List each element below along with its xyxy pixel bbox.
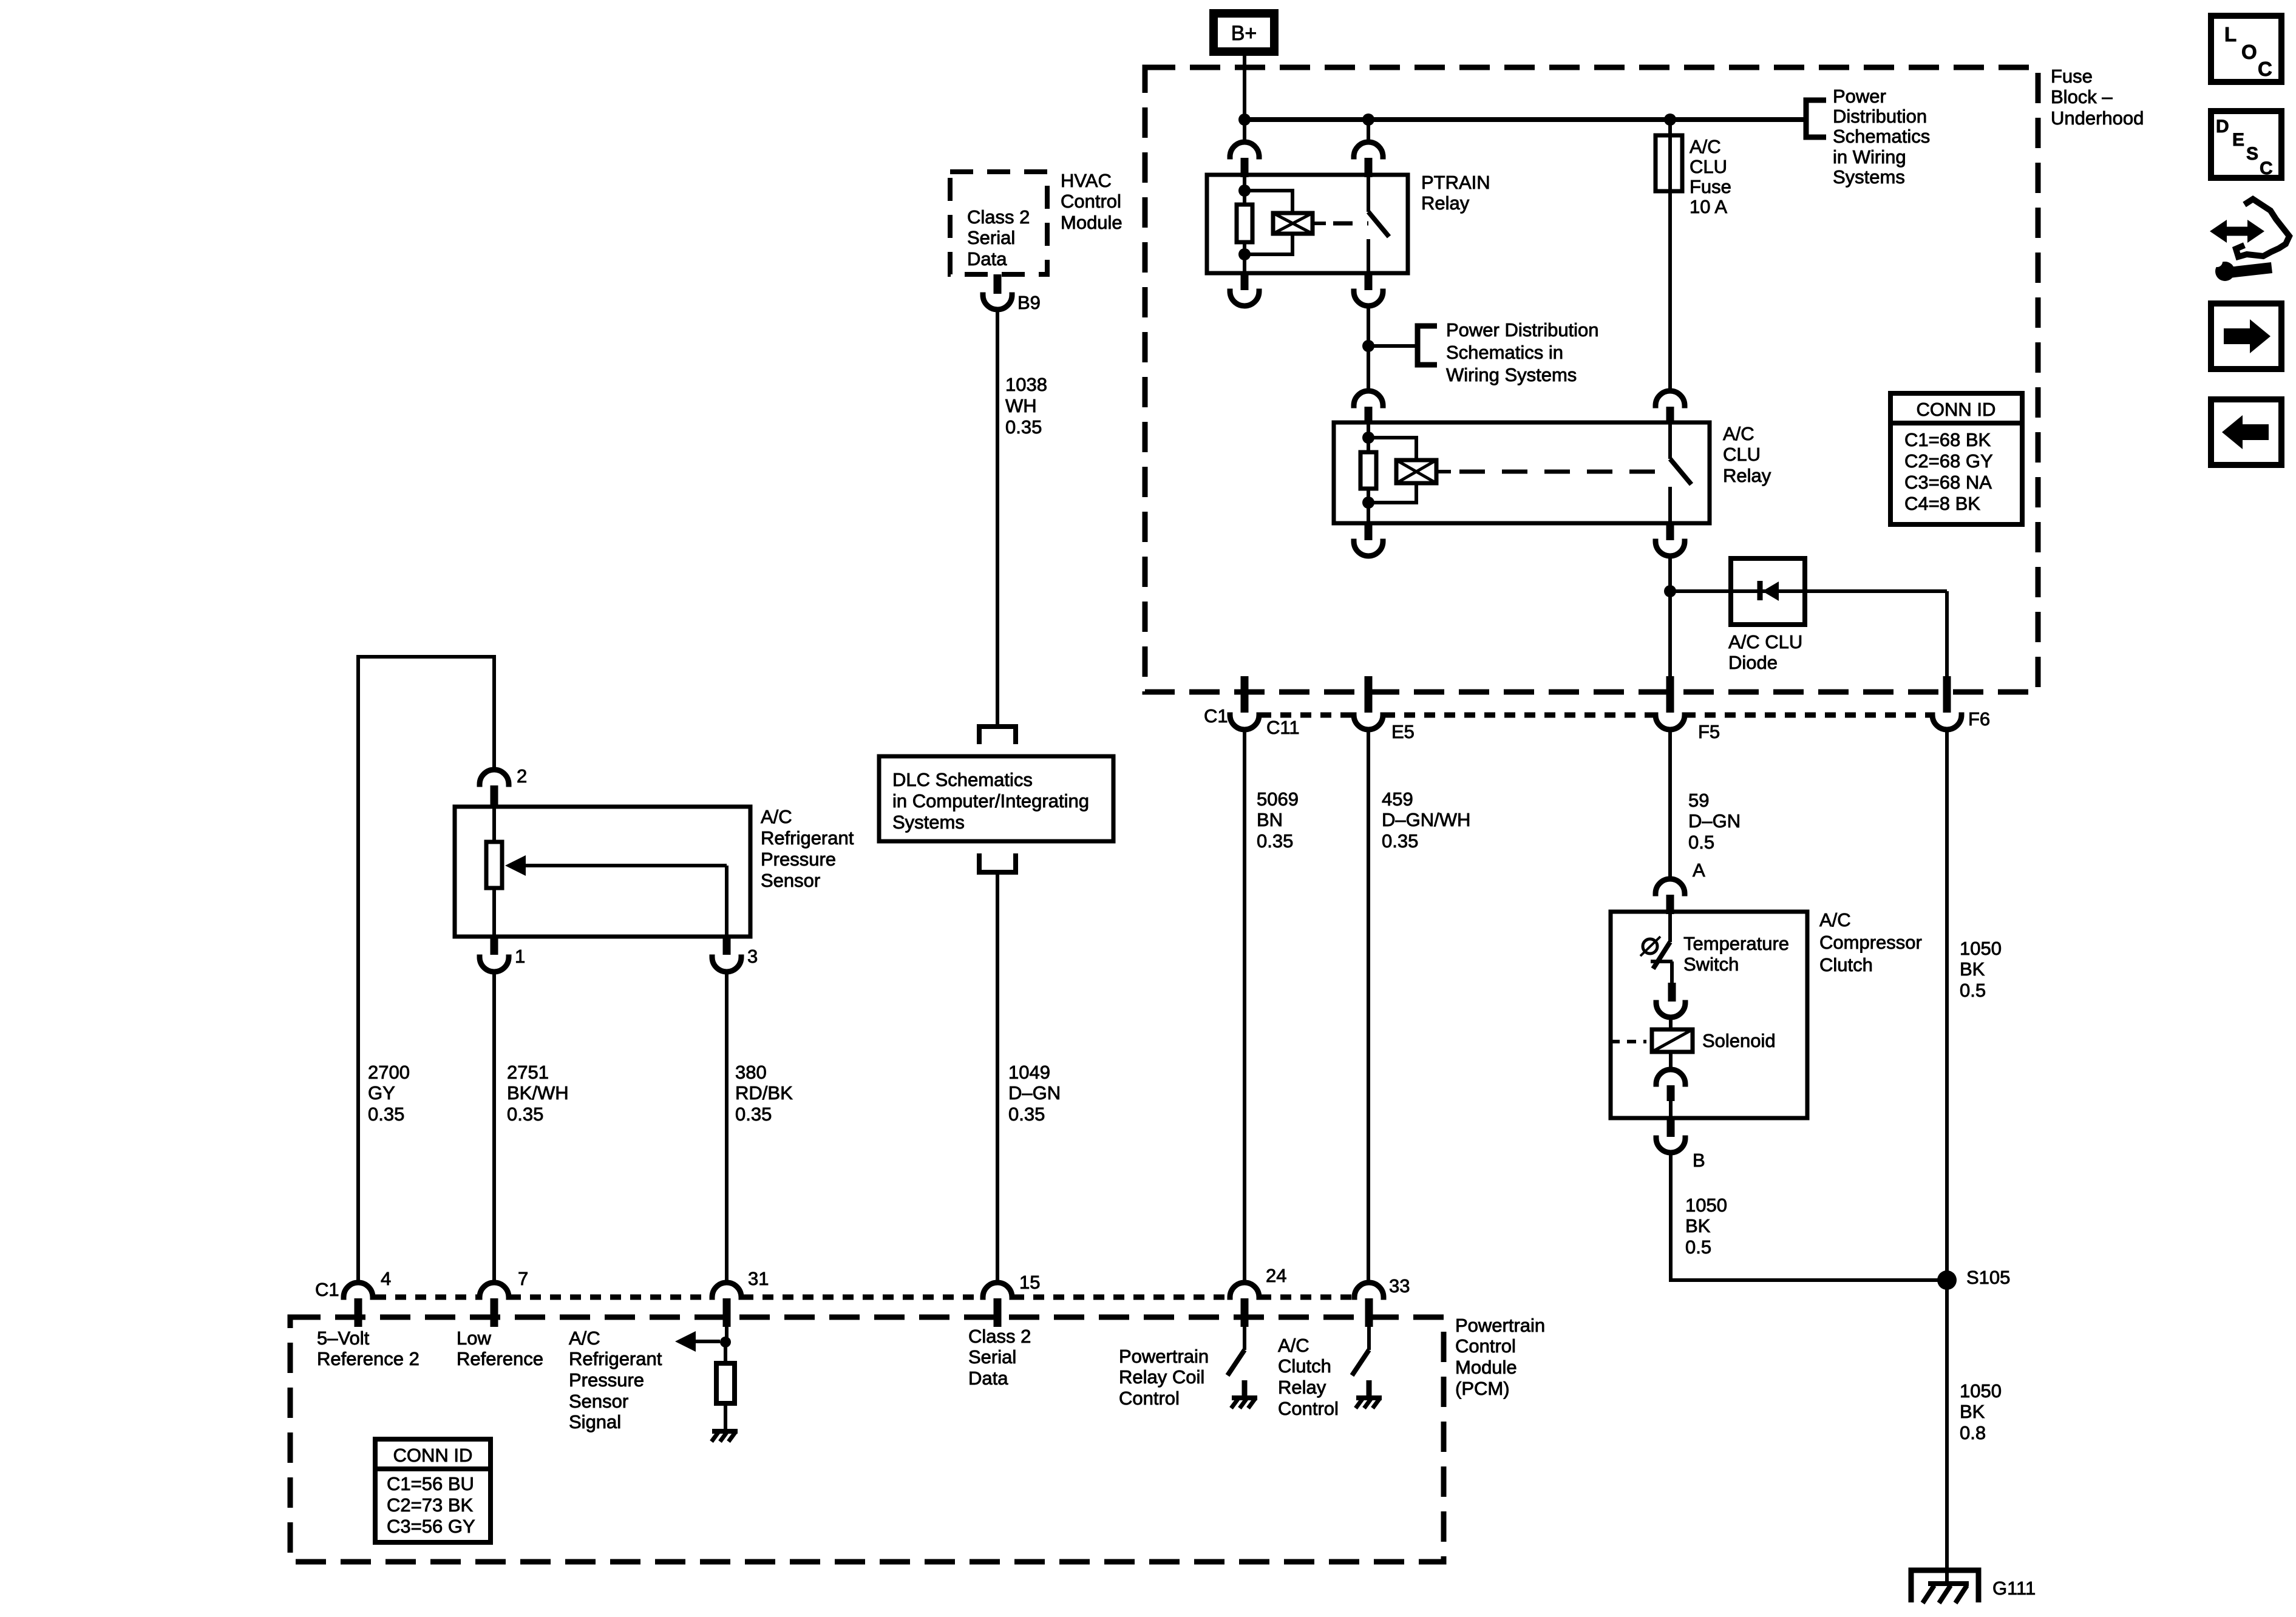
- wire 5069 BN (C11 to PCM 24): [1243, 730, 1246, 1283]
- svg-text:A/C: A/C: [1723, 423, 1754, 444]
- off-page bracket above DLC box: [979, 727, 1016, 744]
- node CLU coil bottom: [1362, 497, 1374, 509]
- fuse block connector row (dotted): [1260, 713, 1932, 718]
- svg-text:Systems: Systems: [1833, 166, 1905, 188]
- connector pin PTRAIN out (switch, bottom): [1365, 273, 1373, 290]
- svg-text:CONN ID: CONN ID: [393, 1445, 473, 1466]
- svg-text:F5: F5: [1698, 721, 1720, 742]
- wire 1050 BK 0.5 (F6 down): [1945, 730, 1949, 1280]
- connector pin F5: [1666, 676, 1674, 713]
- PTRAIN winding symbol: [1273, 213, 1313, 234]
- connector pin 2 (sensor): [480, 770, 509, 784]
- svg-text:0.35: 0.35: [1257, 830, 1293, 852]
- PCM dashed border: [290, 1317, 1444, 1562]
- svg-text:CLU: CLU: [1723, 444, 1761, 465]
- connector pin 15 (PCM): [983, 1283, 1012, 1297]
- PTRAIN switch: [1367, 175, 1370, 212]
- svg-text:Class 2: Class 2: [967, 206, 1030, 228]
- wire fuse column: [1668, 120, 1672, 391]
- svg-text:BN: BN: [1257, 809, 1283, 830]
- connector pin CLU relay coil top: [1354, 391, 1383, 405]
- svg-text:Refrigerant: Refrigerant: [569, 1348, 662, 1369]
- svg-text:B9: B9: [1017, 292, 1041, 313]
- svg-text:Class 2: Class 2: [968, 1326, 1031, 1347]
- node bus-B+: [1238, 114, 1251, 126]
- off-page bracket: power distribution (middle): [1418, 326, 1437, 365]
- connector pin CLU relay switch top: [1656, 391, 1685, 405]
- PTRAIN coil conductor: [1243, 175, 1246, 273]
- svg-text:0.35: 0.35: [368, 1103, 404, 1125]
- CLU coil-to-switch dashed link: [1436, 470, 1451, 473]
- svg-text:O: O: [2241, 41, 2257, 63]
- svg-text:C1: C1: [315, 1279, 339, 1300]
- CLU winding symbol: [1396, 460, 1436, 483]
- svg-text:0.8: 0.8: [1960, 1422, 1986, 1443]
- icon arrow left box: [2211, 399, 2281, 465]
- svg-text:5069: 5069: [1257, 788, 1299, 810]
- connector pin A: [1656, 879, 1685, 893]
- svg-text:BK: BK: [1960, 1401, 1985, 1422]
- resistor PTRAIN coil: [1237, 205, 1252, 242]
- icon LOC box: [2211, 16, 2281, 82]
- svg-text:C1=56 BU: C1=56 BU: [387, 1473, 474, 1494]
- svg-text:Temperature: Temperature: [1683, 933, 1789, 954]
- connector pin E5: [1365, 676, 1373, 713]
- svg-text:in Computer/Integrating: in Computer/Integrating: [892, 790, 1089, 812]
- node tap to power distribution: [1362, 340, 1374, 352]
- fuse A/C CLU 10A: [1656, 135, 1682, 191]
- svg-text:Module: Module: [1061, 212, 1123, 233]
- A/C compressor clutch box: [1611, 912, 1807, 1118]
- connector pair switch-solenoid: [1668, 983, 1676, 1002]
- connector pin B: [1667, 1118, 1675, 1137]
- wire 1049 D-GN (DLC to PCM 15): [996, 872, 999, 1283]
- connector pin CLU out coil bottom: [1365, 523, 1373, 540]
- svg-text:5–Volt: 5–Volt: [317, 1327, 370, 1349]
- potentiometer wiper arrow: [525, 864, 727, 867]
- svg-text:2751: 2751: [507, 1062, 549, 1083]
- connector pin 4 (PCM): [344, 1283, 373, 1297]
- svg-text:Distribution: Distribution: [1833, 106, 1927, 127]
- svg-text:Control: Control: [1455, 1335, 1516, 1357]
- svg-text:1050: 1050: [1960, 1380, 2002, 1402]
- svg-text:Reference: Reference: [457, 1348, 543, 1369]
- svg-text:0.35: 0.35: [507, 1103, 543, 1125]
- connector pin PTRAIN out (coil, bottom): [1241, 273, 1249, 290]
- svg-text:Clutch: Clutch: [1278, 1355, 1331, 1377]
- ground: [1232, 1395, 1257, 1400]
- connector pin PTRAIN relay pin (switch, top): [1367, 120, 1370, 143]
- wire 1050 BK 0.8 (S105 to G111): [1945, 1280, 1949, 1584]
- wire B+ down to bus: [1243, 56, 1246, 120]
- svg-text:Fuse: Fuse: [2051, 66, 2093, 87]
- svg-text:0.5: 0.5: [1960, 980, 1986, 1001]
- node CLU coil top: [1362, 432, 1374, 444]
- svg-text:F6: F6: [1968, 708, 1990, 730]
- svg-text:24: 24: [1266, 1265, 1286, 1286]
- svg-text:380: 380: [735, 1062, 767, 1083]
- connector pin 1 (sensor): [491, 937, 498, 955]
- relay PTRAIN box: [1207, 175, 1408, 273]
- svg-text:Sensor: Sensor: [761, 870, 820, 891]
- svg-text:in Wiring: in Wiring: [1833, 146, 1906, 168]
- svg-text:459: 459: [1382, 788, 1413, 810]
- svg-text:59: 59: [1688, 790, 1709, 811]
- wire 459 D-GN/WH (E5 to PCM 33): [1367, 730, 1370, 1283]
- svg-text:1050: 1050: [1685, 1195, 1727, 1216]
- PCM switch to ground (A/C clutch relay): [1367, 1327, 1371, 1350]
- svg-text:L: L: [2224, 23, 2237, 46]
- svg-text:2700: 2700: [368, 1062, 410, 1083]
- connector pin C11: [1241, 676, 1249, 713]
- svg-text:S105: S105: [1966, 1267, 2010, 1288]
- svg-text:Powertrain: Powertrain: [1455, 1315, 1545, 1336]
- CONN ID table (PCM): [375, 1439, 491, 1542]
- bus wire from B+ across fuse block: [1245, 117, 1806, 122]
- CLU coil loop: [1368, 438, 1416, 503]
- svg-text:PTRAIN: PTRAIN: [1421, 172, 1490, 193]
- svg-text:0.35: 0.35: [1005, 416, 1042, 438]
- node bus-PTRAIN: [1362, 114, 1374, 126]
- temperature switch: [1668, 912, 1672, 942]
- svg-text:Serial: Serial: [967, 227, 1015, 248]
- ground (sensor signal): [712, 1429, 738, 1434]
- connector pin 33 (PCM): [1354, 1283, 1384, 1297]
- svg-text:D–GN/WH: D–GN/WH: [1382, 809, 1470, 830]
- svg-text:D: D: [2216, 117, 2229, 137]
- svg-text:Control: Control: [1278, 1398, 1339, 1419]
- PCM connector row (dotted): [375, 1295, 1353, 1300]
- svg-text:1: 1: [515, 946, 525, 967]
- ground: [1356, 1395, 1382, 1400]
- svg-text:C11: C11: [1266, 717, 1300, 738]
- svg-text:Data: Data: [968, 1368, 1008, 1389]
- svg-text:B: B: [1693, 1150, 1705, 1171]
- svg-text:Power Distribution: Power Distribution: [1446, 319, 1599, 341]
- svg-text:Fuse: Fuse: [1690, 176, 1731, 197]
- wire 1050 BK 0.5 (B down): [1669, 1153, 1673, 1282]
- svg-text:33: 33: [1389, 1275, 1410, 1297]
- svg-text:4: 4: [381, 1268, 391, 1289]
- svg-text:Signal: Signal: [569, 1411, 621, 1432]
- svg-text:G111: G111: [1992, 1578, 2036, 1599]
- wire tap to bracket: [1368, 344, 1418, 348]
- svg-text:Refrigerant: Refrigerant: [761, 827, 854, 849]
- svg-text:C1=68 BK: C1=68 BK: [1904, 429, 1991, 450]
- svg-text:Underhood: Underhood: [2051, 107, 2144, 129]
- svg-text:Block –: Block –: [2051, 86, 2113, 107]
- svg-text:Compressor: Compressor: [1819, 932, 1922, 953]
- svg-text:Pressure: Pressure: [569, 1369, 644, 1391]
- svg-text:0.5: 0.5: [1685, 1236, 1711, 1258]
- svg-text:Control: Control: [1119, 1388, 1180, 1409]
- svg-text:0.5: 0.5: [1688, 832, 1714, 853]
- svg-text:C3=68 NA: C3=68 NA: [1904, 472, 1992, 493]
- svg-text:Schematics in: Schematics in: [1446, 342, 1563, 363]
- svg-text:Module: Module: [1455, 1357, 1517, 1378]
- CONN ID table (fuse block): [1890, 393, 2022, 524]
- wire to S105: [1671, 1278, 1947, 1282]
- wire diode branch horizontal: [1670, 589, 1947, 593]
- svg-text:7: 7: [518, 1268, 528, 1289]
- ground G111: [1911, 1570, 1978, 1602]
- svg-text:C: C: [2260, 158, 2273, 178]
- wire 59 D-GN (F5 to clutch A): [1668, 730, 1672, 879]
- diode A/C CLU box: [1731, 558, 1805, 625]
- svg-text:Serial: Serial: [968, 1346, 1016, 1368]
- connector pin F6: [1943, 676, 1951, 713]
- node coil top: [1238, 185, 1251, 197]
- splice S105: [1937, 1270, 1957, 1290]
- svg-text:E5: E5: [1391, 721, 1415, 742]
- svg-text:15: 15: [1019, 1272, 1040, 1293]
- resistor potentiometer: [486, 842, 502, 888]
- svg-text:Relay: Relay: [1723, 465, 1771, 486]
- svg-text:GY: GY: [368, 1082, 395, 1103]
- svg-text:0.35: 0.35: [1008, 1103, 1045, 1125]
- wire 1038 WH (B9 to DLC): [996, 310, 999, 727]
- wire CLU switch output to F5: [1668, 556, 1672, 677]
- svg-text:C2=68 GY: C2=68 GY: [1904, 450, 1993, 472]
- PTRAIN coil loop: [1245, 191, 1292, 254]
- connector pin 24 (PCM): [1230, 1283, 1259, 1297]
- svg-text:BK: BK: [1685, 1215, 1711, 1236]
- svg-text:D–GN: D–GN: [1008, 1082, 1061, 1103]
- svg-text:31: 31: [748, 1268, 769, 1289]
- svg-text:HVAC: HVAC: [1061, 170, 1112, 191]
- off-page bracket: power distribution (top right): [1806, 100, 1826, 137]
- svg-text:Diode: Diode: [1728, 652, 1778, 673]
- svg-text:C4=8 BK: C4=8 BK: [1904, 493, 1980, 514]
- node diode tap: [1664, 585, 1676, 597]
- svg-text:Low: Low: [457, 1327, 491, 1349]
- svg-text:(PCM): (PCM): [1455, 1378, 1510, 1399]
- svg-text:Relay: Relay: [1421, 192, 1470, 214]
- connector pin 31 (PCM): [712, 1283, 741, 1297]
- PTRAIN coil-to-switch dashed link: [1313, 222, 1326, 225]
- svg-text:E: E: [2232, 130, 2244, 150]
- icon arrow right box: [2211, 303, 2281, 369]
- svg-text:C2=73 BK: C2=73 BK: [387, 1494, 474, 1516]
- svg-text:Clutch: Clutch: [1819, 954, 1873, 975]
- CLU coil conductor: [1367, 422, 1370, 523]
- PCM switch to ground (powertrain relay coil): [1243, 1327, 1246, 1350]
- fuse block underhood dashed border: [1145, 67, 2038, 692]
- svg-text:DLC Schematics: DLC Schematics: [892, 769, 1033, 790]
- svg-text:Wiring Systems: Wiring Systems: [1446, 364, 1577, 385]
- svg-text:CLU: CLU: [1690, 156, 1727, 177]
- svg-text:Pressure: Pressure: [761, 849, 836, 870]
- wire diode branch down to F6: [1945, 591, 1949, 677]
- svg-text:Power: Power: [1833, 86, 1886, 107]
- connector pin 3 (sensor): [723, 937, 731, 955]
- svg-text:CONN ID: CONN ID: [1917, 399, 1996, 420]
- icon service/wrench: [2210, 199, 2289, 281]
- potentiometer conductor: [492, 807, 496, 842]
- A/C refrigerant pressure sensor box: [455, 807, 750, 937]
- svg-text:Switch: Switch: [1683, 954, 1739, 975]
- battery feed B+: [1214, 13, 1274, 52]
- svg-text:A/C CLU: A/C CLU: [1728, 631, 1802, 653]
- svg-text:1049: 1049: [1008, 1062, 1050, 1083]
- svg-text:BK: BK: [1960, 958, 1985, 980]
- CLU switch: [1668, 422, 1672, 459]
- svg-text:2: 2: [517, 765, 527, 787]
- PCM pin31 internal: arrow, resistor, ground: [725, 1327, 729, 1338]
- icon DESC box: [2211, 111, 2281, 178]
- svg-text:A/C: A/C: [1690, 136, 1721, 157]
- connector pin PTRAIN relay pin (coil, top): [1243, 120, 1246, 143]
- svg-text:A/C: A/C: [761, 806, 792, 827]
- svg-text:Control: Control: [1061, 191, 1121, 212]
- svg-text:BK/WH: BK/WH: [507, 1082, 569, 1103]
- node bus-fuse: [1664, 114, 1676, 126]
- svg-text:C3=56 GY: C3=56 GY: [387, 1516, 475, 1537]
- svg-text:C: C: [2258, 58, 2272, 80]
- svg-text:C1: C1: [1204, 705, 1228, 727]
- off-page bracket below DLC box: [979, 853, 1016, 872]
- DLC schematics box: [879, 756, 1113, 841]
- svg-text:A/C: A/C: [1278, 1335, 1309, 1356]
- wire PTRAIN switch output down: [1367, 306, 1370, 391]
- svg-text:Sensor: Sensor: [569, 1391, 628, 1412]
- svg-text:Schematics: Schematics: [1833, 126, 1930, 147]
- wire 380 RD/BK (pin3 to PCM 31): [725, 972, 729, 1283]
- svg-text:A/C: A/C: [569, 1327, 600, 1349]
- svg-text:Relay Coil: Relay Coil: [1119, 1366, 1204, 1388]
- connector pair solenoid-case: [1669, 1052, 1673, 1070]
- solenoid: [1652, 1029, 1693, 1052]
- connector pin 7 (PCM): [480, 1283, 509, 1297]
- svg-text:Solenoid: Solenoid: [1702, 1030, 1776, 1051]
- relay A/C CLU box: [1334, 422, 1710, 523]
- svg-text:A: A: [1693, 859, 1705, 881]
- svg-text:10 A: 10 A: [1690, 196, 1727, 217]
- svg-text:0.35: 0.35: [735, 1103, 772, 1125]
- svg-text:Data: Data: [967, 248, 1007, 269]
- connector pin CLU out switch bottom: [1666, 523, 1674, 540]
- svg-text:A/C: A/C: [1819, 909, 1851, 931]
- svg-text:D–GN: D–GN: [1688, 810, 1741, 832]
- svg-text:Relay: Relay: [1278, 1377, 1326, 1398]
- wire 2751 BK/WH (pin1 to PCM 7): [492, 972, 496, 1283]
- connector pin B9: [994, 274, 1002, 294]
- svg-text:RD/BK: RD/BK: [735, 1082, 793, 1103]
- wire 5V loop (pin4 col up, across, down to pin2): [358, 657, 494, 1283]
- svg-text:0.35: 0.35: [1382, 830, 1418, 852]
- svg-text:1050: 1050: [1960, 938, 2002, 959]
- HVAC control module dashed box (Class 2 Serial Data): [950, 172, 1047, 274]
- svg-text:Systems: Systems: [892, 812, 965, 833]
- svg-text:B+: B+: [1231, 22, 1257, 45]
- svg-text:WH: WH: [1005, 395, 1037, 416]
- svg-text:S: S: [2246, 144, 2258, 164]
- svg-text:Powertrain: Powertrain: [1119, 1346, 1209, 1367]
- svg-text:Reference 2: Reference 2: [317, 1348, 419, 1369]
- svg-text:1038: 1038: [1005, 374, 1047, 395]
- diode symbol: [1758, 581, 1763, 600]
- resistor CLU coil: [1360, 452, 1376, 489]
- node coil bottom: [1238, 248, 1251, 260]
- svg-text:3: 3: [747, 946, 758, 967]
